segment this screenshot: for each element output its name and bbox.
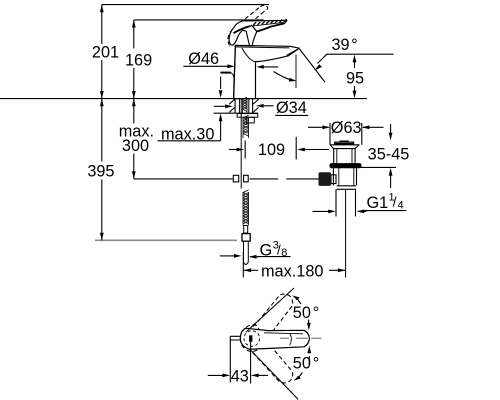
svg-text:50°: 50°	[293, 355, 319, 373]
svg-text:95: 95	[346, 69, 364, 87]
svg-text:Ø63: Ø63	[331, 119, 362, 137]
svg-text:50°: 50°	[293, 304, 319, 322]
svg-text:/: /	[393, 195, 397, 210]
svg-text:300: 300	[122, 137, 149, 155]
svg-text:4: 4	[398, 200, 404, 212]
svg-text:169: 169	[125, 52, 152, 70]
svg-text:Ø34: Ø34	[276, 99, 307, 117]
svg-text:G: G	[260, 242, 273, 260]
svg-text:395: 395	[87, 163, 114, 181]
svg-text:G1: G1	[367, 194, 389, 212]
svg-text:201: 201	[92, 43, 119, 61]
svg-text:39°: 39°	[332, 36, 358, 54]
svg-text:43: 43	[231, 368, 249, 386]
svg-text:109: 109	[258, 141, 285, 159]
svg-text:Ø46: Ø46	[188, 50, 219, 68]
svg-text:35-45: 35-45	[368, 146, 410, 164]
svg-text:8: 8	[281, 247, 287, 259]
svg-text:max.180: max.180	[261, 262, 323, 280]
